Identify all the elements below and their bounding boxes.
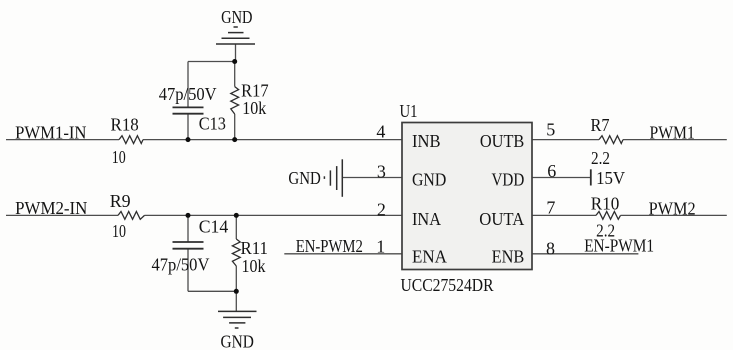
svg-text:GND: GND <box>221 7 252 27</box>
wire pin 8 EN-PWM1 <box>532 253 638 255</box>
wire R17 top stem <box>234 62 236 87</box>
svg-text:10k: 10k <box>242 256 266 276</box>
svg-text:4: 4 <box>376 121 385 141</box>
wire R11 top stem <box>235 215 237 239</box>
wire pin 6 to 15V <box>532 177 591 179</box>
wire C14 top stem <box>187 215 189 242</box>
svg-text:INA: INA <box>412 209 441 229</box>
wire pin 7 to R10 <box>532 214 596 216</box>
wire GND to pin 3 <box>342 177 402 179</box>
wire bottom ground stem <box>235 291 237 311</box>
ground symbol top <box>216 27 255 44</box>
svg-text:1: 1 <box>376 236 385 256</box>
svg-text:R18: R18 <box>111 115 139 135</box>
svg-text:2.2: 2.2 <box>596 221 615 241</box>
junction C13 on PWM1-IN <box>186 137 191 142</box>
ground symbol at pin 3 <box>324 159 342 197</box>
wire top branch horizontal <box>188 61 235 63</box>
ground symbol bottom <box>218 311 257 328</box>
wire bottom branch horizontal <box>188 290 236 292</box>
svg-text:ENA: ENA <box>412 246 447 266</box>
svg-text:VDD: VDD <box>492 169 525 189</box>
svg-text:PWM2: PWM2 <box>649 198 696 218</box>
svg-text:GND: GND <box>288 168 320 188</box>
svg-text:6: 6 <box>547 161 556 181</box>
svg-text:UCC27524DR: UCC27524DR <box>401 275 494 295</box>
wire R17 bottom stem <box>234 114 236 140</box>
svg-text:8: 8 <box>546 238 555 258</box>
wire top ground stem <box>235 44 237 62</box>
svg-text:EN-PWM2: EN-PWM2 <box>296 236 363 256</box>
svg-text:PWM2-IN: PWM2-IN <box>15 198 87 218</box>
capacitor C14 plates <box>173 241 204 243</box>
svg-text:OUTA: OUTA <box>479 209 524 229</box>
wire R11 bottom stem <box>235 266 237 291</box>
wire PWM1-IN net left segment <box>6 139 119 141</box>
svg-text:ENB: ENB <box>492 246 525 266</box>
wire C13 bottom stem <box>187 114 189 140</box>
wire PWM2-IN net left segment <box>6 214 118 216</box>
svg-text:PWM1: PWM1 <box>650 123 695 143</box>
resistor R11 body <box>232 239 240 266</box>
svg-text:47p/50V: 47p/50V <box>152 255 210 275</box>
junction bottom ground <box>234 289 239 294</box>
svg-text:GND: GND <box>221 332 254 350</box>
capacitor C13 plates <box>173 106 204 108</box>
junction R11 on PWM2-IN <box>234 213 239 218</box>
wire R7 to PWM1 end <box>623 139 727 141</box>
wire C14 bottom stem <box>187 249 189 292</box>
svg-text:INB: INB <box>412 131 441 151</box>
svg-text:47p/50V: 47p/50V <box>159 84 217 104</box>
wire R10 to PWM2 end <box>621 214 727 216</box>
svg-text:5: 5 <box>546 120 555 140</box>
junction C14 on PWM2-IN <box>186 213 191 218</box>
svg-text:R9: R9 <box>110 191 131 211</box>
power rail 15V bar <box>590 169 592 185</box>
resistor R7 body <box>599 136 623 144</box>
wire pin 5 to R7 <box>532 139 599 141</box>
svg-text:U1: U1 <box>400 101 418 121</box>
resistor R18 body <box>119 136 143 144</box>
svg-text:GND: GND <box>412 169 446 189</box>
wire C13 top stem <box>187 62 189 108</box>
junction R17 on PWM1-IN <box>232 137 237 142</box>
svg-text:EN-PWM1: EN-PWM1 <box>584 235 654 255</box>
svg-text:10: 10 <box>112 221 126 241</box>
wire PWM2-IN net right segment to pin 2 <box>145 214 403 216</box>
svg-text:15V: 15V <box>596 168 625 188</box>
svg-text:R10: R10 <box>591 194 620 214</box>
svg-text:2.2: 2.2 <box>591 148 610 168</box>
svg-text:R7: R7 <box>591 115 610 135</box>
svg-text:7: 7 <box>546 198 555 218</box>
svg-text:3: 3 <box>377 161 386 181</box>
resistor R9 body <box>118 212 145 220</box>
op-amp U1 IC body UCC27524DR <box>402 123 532 270</box>
wire PWM1-IN net right segment to pin 4 <box>143 139 402 141</box>
junction C13 top <box>232 59 237 64</box>
svg-text:10: 10 <box>112 147 126 167</box>
svg-text:C14: C14 <box>199 217 229 237</box>
svg-text:R11: R11 <box>241 238 269 258</box>
svg-text:OUTB: OUTB <box>480 131 524 151</box>
svg-text:2: 2 <box>377 199 386 219</box>
svg-text:PWM1-IN: PWM1-IN <box>15 122 86 142</box>
svg-text:C13: C13 <box>199 113 226 133</box>
resistor R17 body <box>231 87 239 114</box>
wire EN-PWM2 to pin 1 <box>284 253 402 255</box>
svg-text:10k: 10k <box>242 98 266 118</box>
resistor R10 body <box>596 212 621 220</box>
